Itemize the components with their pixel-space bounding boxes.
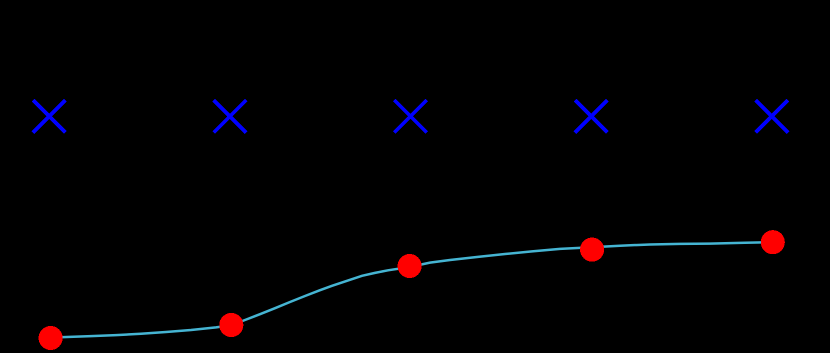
data dot 3 [398,254,422,278]
X marker 1 [34,101,64,131]
X marker 3 [396,101,426,131]
X marker 5 [757,101,787,131]
X marker 4 [576,101,606,131]
fitted curve [51,242,773,337]
X marker 2 [215,101,245,131]
data dot 2 [219,313,243,337]
data dot 1 [39,326,63,350]
data dot 4 [580,238,604,262]
data dot 5 [761,230,785,254]
